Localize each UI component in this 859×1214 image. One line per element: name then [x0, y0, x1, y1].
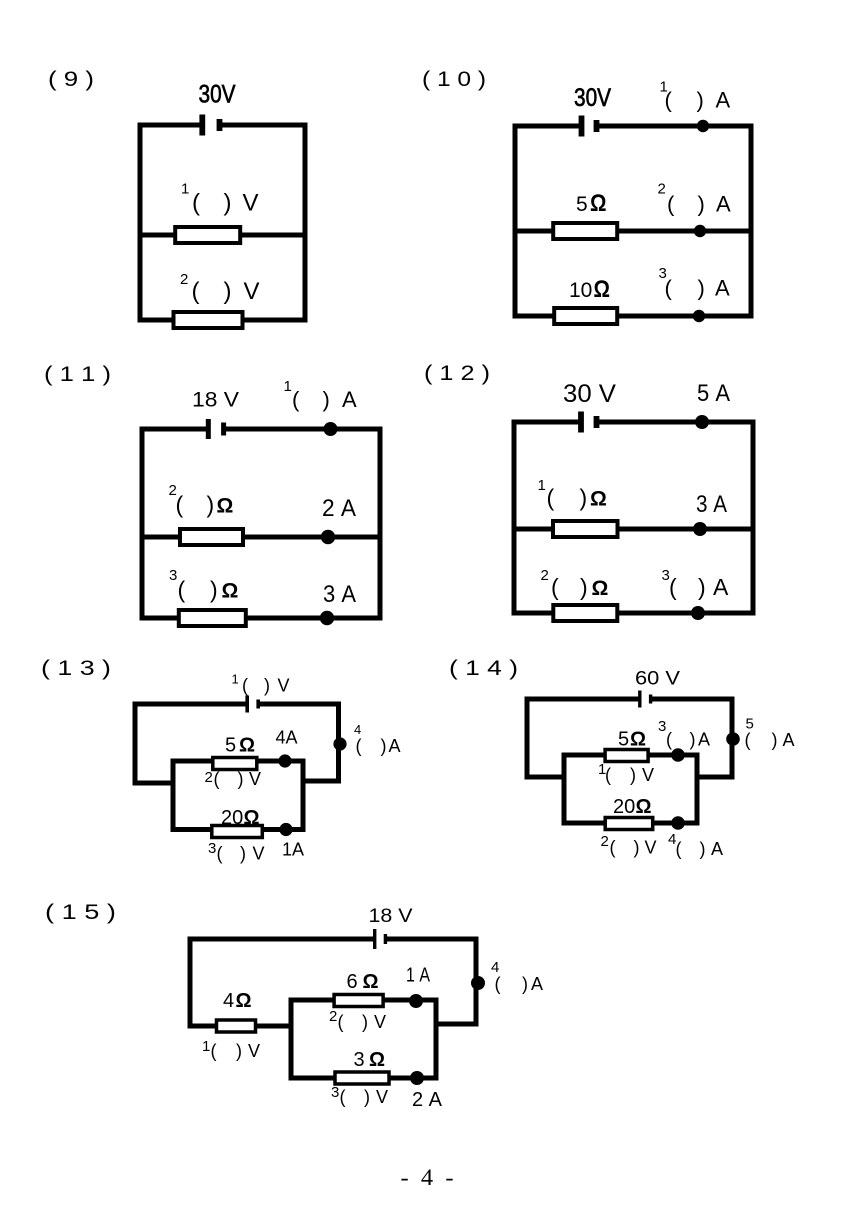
- svg-text:1: 1: [202, 1038, 210, 1055]
- wire: (11) top rail right of battery: [228, 427, 381, 432]
- svg-text:3 A: 3 A: [323, 581, 356, 608]
- answer label 3 ( )V (13): [208, 840, 265, 864]
- resistor value label 3ohm (15): [354, 1049, 386, 1071]
- battery 30V (10): [579, 116, 600, 137]
- wire: (12) left vertical: [512, 422, 517, 613]
- junction dot middle rail (11): [321, 530, 335, 544]
- junction dot right vertical (13): [333, 737, 346, 750]
- wire: (10) bottom rail: [515, 314, 751, 319]
- resistor 5ohm (10): [553, 223, 617, 239]
- svg-text:(: (: [340, 1087, 346, 1107]
- svg-text:Ω: Ω: [636, 796, 652, 818]
- svg-text:1: 1: [181, 181, 189, 198]
- svg-text:20: 20: [613, 796, 635, 818]
- svg-text:): ): [364, 1087, 370, 1107]
- svg-text:): ): [240, 844, 246, 864]
- svg-text:(: (: [551, 574, 559, 600]
- svg-text:A: A: [698, 730, 710, 750]
- resistor value label 10ohm (10): [569, 276, 610, 303]
- svg-text:V: V: [376, 1087, 388, 1107]
- svg-text:): ): [700, 839, 706, 859]
- resistor 10ohm (10): [554, 308, 617, 324]
- svg-text:V: V: [253, 844, 265, 864]
- answer label 2 ( )V (15): [329, 1008, 386, 1032]
- junction dot bottom branch (14): [671, 816, 685, 830]
- svg-text:): ): [224, 190, 232, 217]
- junction dot middle rail (12): [693, 522, 707, 536]
- svg-text:10: 10: [569, 279, 592, 302]
- svg-text:2 A: 2 A: [412, 1089, 443, 1111]
- resistor 20ohm (13): [212, 826, 262, 838]
- wire: (12) top rail left of battery: [514, 420, 576, 425]
- svg-text:30 V: 30 V: [563, 380, 616, 408]
- wire: (9) bottom rail: [140, 318, 305, 323]
- battery 30V (9): [199, 115, 222, 136]
- resistor value label 5ohm (10): [576, 190, 607, 217]
- wire: (10) middle rail: [515, 229, 751, 234]
- svg-text:V: V: [278, 676, 290, 696]
- resistor R1 (12): [553, 521, 618, 537]
- wire: (15) outer right vertical: [474, 939, 479, 1024]
- svg-text:A: A: [531, 974, 543, 994]
- junction dot bottom rail (12): [691, 606, 705, 620]
- battery 30V (12): [578, 412, 599, 433]
- svg-text:): ): [210, 577, 218, 603]
- resistor R1 (9): [175, 227, 240, 243]
- svg-text:(: (: [192, 278, 200, 305]
- svg-text:2 A: 2 A: [322, 495, 356, 522]
- answer label 1 ( )V (9): [181, 181, 259, 217]
- battery 60V (14): [638, 691, 652, 708]
- wire: (10) top rail left of battery: [515, 124, 577, 129]
- answer label 1 ( )A (10): [660, 79, 731, 113]
- svg-text:): ): [381, 736, 387, 756]
- svg-text:3: 3: [208, 840, 216, 857]
- wire: (15) top branch: [291, 998, 436, 1003]
- svg-text:V: V: [645, 838, 657, 858]
- wire: (13) left stub: [135, 781, 173, 786]
- svg-text:2: 2: [180, 271, 188, 288]
- svg-text:30V: 30V: [199, 81, 236, 109]
- resistor R2 (11): [180, 529, 243, 545]
- wire: (9) left vertical: [138, 125, 143, 320]
- svg-text:Ω: Ω: [217, 495, 234, 518]
- svg-text:A: A: [716, 192, 731, 217]
- svg-text:): ): [698, 192, 705, 217]
- svg-text:1: 1: [284, 378, 292, 395]
- svg-text:1 A: 1 A: [406, 965, 431, 987]
- junction dot top rail (12): [695, 415, 709, 429]
- svg-text:(: (: [669, 574, 677, 600]
- svg-text:(: (: [214, 769, 220, 789]
- resistor R2 (9): [174, 312, 243, 328]
- wire: (14) top branch: [564, 753, 697, 758]
- wire: (13) outer right vertical: [336, 704, 341, 781]
- wire: (11) middle rail: [142, 535, 380, 540]
- svg-text:A: A: [783, 730, 795, 750]
- svg-text:V: V: [243, 190, 259, 217]
- svg-text:(: (: [666, 730, 672, 750]
- wire: (15) inner left vertical: [289, 1000, 294, 1078]
- svg-text:): ): [522, 974, 528, 994]
- answer label 3 ( )V (15): [331, 1084, 388, 1107]
- svg-text:V: V: [374, 1012, 386, 1032]
- junction dot top branch (13): [278, 754, 291, 767]
- battery 18V (11): [206, 419, 226, 439]
- wire: (13) inner right vertical: [301, 761, 306, 830]
- svg-text:5: 5: [618, 729, 629, 751]
- wire: (12) right vertical: [751, 422, 756, 613]
- svg-text:1A: 1A: [282, 840, 304, 860]
- svg-text:( 1 0 ): ( 1 0 ): [422, 68, 486, 91]
- wire: (13) inner left vertical: [171, 761, 176, 830]
- answer label 3 ( )A (14): [658, 718, 710, 750]
- svg-text:- 4 -: - 4 -: [401, 1165, 454, 1190]
- wire: (13) top rail right of battery: [261, 702, 339, 707]
- resistor value label 5ohm (13): [225, 735, 255, 757]
- resistor 3ohm (15): [335, 1072, 389, 1084]
- svg-text:): ): [236, 1041, 242, 1061]
- wire: (11) top rail left of battery: [142, 427, 204, 432]
- resistor R3 (11): [179, 610, 246, 626]
- wire: (14) bottom branch: [564, 821, 697, 826]
- junction dot right vertical (14): [726, 732, 740, 746]
- junction dot top rail (11): [324, 422, 338, 436]
- wire: (10) top rail right of battery: [602, 124, 752, 129]
- resistor value label 20ohm (14): [613, 796, 652, 818]
- svg-text:1: 1: [232, 672, 239, 687]
- svg-text:Ω: Ω: [592, 577, 609, 600]
- svg-text:): ): [264, 676, 270, 696]
- wire: (14) inner left vertical: [562, 755, 567, 823]
- svg-text:( 1 2 ): ( 1 2 ): [424, 362, 490, 385]
- svg-text:4: 4: [354, 722, 361, 737]
- answer label 2 ( )ohm (12): [541, 567, 609, 600]
- svg-text:Ω: Ω: [363, 971, 379, 993]
- svg-text:(: (: [192, 190, 200, 217]
- svg-text:(: (: [178, 577, 186, 603]
- svg-text:18 V: 18 V: [192, 389, 239, 412]
- svg-text:A: A: [713, 574, 729, 600]
- answer label 1 ( )V (14): [598, 761, 654, 785]
- svg-text:1: 1: [538, 477, 546, 494]
- resistor 6ohm (15): [334, 995, 383, 1007]
- wire: (11) left vertical: [140, 429, 145, 618]
- svg-text:30V: 30V: [574, 84, 611, 112]
- wire: (10) left vertical: [513, 126, 518, 316]
- wire: (9) middle rail: [140, 233, 305, 238]
- svg-text:3: 3: [354, 1049, 365, 1071]
- wire: (9) top rail left of battery: [140, 123, 198, 128]
- svg-text:(: (: [665, 276, 673, 301]
- wire: (15) top rail right of battery: [388, 937, 477, 942]
- svg-text:): ): [580, 485, 588, 511]
- svg-text:(: (: [547, 485, 555, 511]
- svg-text:Ω: Ω: [222, 580, 239, 603]
- svg-text:Ω: Ω: [630, 729, 646, 751]
- svg-text:(: (: [610, 838, 616, 858]
- wire: (15) top rail left of battery: [190, 937, 372, 942]
- svg-text:5 A: 5 A: [697, 380, 730, 407]
- junction dot right vertical (15): [471, 976, 485, 990]
- svg-text:): ): [698, 276, 705, 301]
- answer label 3 ( )A (12): [662, 567, 730, 600]
- svg-text:(: (: [667, 192, 675, 217]
- wire: (14) outer right vertical: [730, 699, 735, 777]
- svg-text:Ω: Ω: [590, 190, 607, 217]
- svg-text:A: A: [342, 387, 357, 412]
- wire: (15) inner right vertical: [434, 1000, 439, 1078]
- answer label 1 ( )V (15): [202, 1038, 260, 1061]
- svg-text:A: A: [716, 88, 731, 113]
- answer label 4 ( )A (13): [354, 722, 401, 756]
- wire: (12) middle rail: [514, 527, 753, 532]
- junction dot middle rail (10): [694, 225, 706, 237]
- wire: (13) top rail left of battery: [135, 702, 244, 707]
- svg-text:): ): [580, 574, 588, 600]
- junction dot bottom branch (15): [410, 1071, 424, 1085]
- svg-text:(: (: [176, 492, 184, 518]
- answer label 4 ( )A (14): [668, 831, 723, 859]
- svg-text:4: 4: [223, 990, 234, 1012]
- svg-text:2: 2: [205, 769, 213, 786]
- svg-text:(: (: [605, 765, 611, 785]
- svg-text:A: A: [389, 736, 401, 756]
- svg-text:): ): [690, 730, 696, 750]
- svg-text:Ω: Ω: [594, 276, 611, 303]
- junction dot bottom rail (10): [693, 310, 705, 322]
- wire: (9) top rail right of battery: [223, 123, 305, 128]
- svg-text:(: (: [292, 387, 300, 412]
- svg-text:(: (: [495, 974, 501, 994]
- junction dot top branch (15): [409, 994, 423, 1008]
- svg-text:20: 20: [221, 807, 243, 829]
- resistor 5ohm (14): [605, 750, 648, 762]
- wire: (9) right vertical: [303, 125, 308, 320]
- svg-text:2: 2: [601, 833, 609, 850]
- svg-text:Ω: Ω: [590, 488, 607, 511]
- junction dot bottom branch (13): [279, 823, 292, 836]
- wire: (14) left stub: [527, 775, 564, 780]
- svg-text:): ): [634, 838, 640, 858]
- svg-text:): ): [238, 769, 244, 789]
- answer label 3 ( )A (10): [659, 265, 731, 301]
- answer label 2 ( )A (10): [658, 181, 732, 217]
- wire: (10) right vertical: [749, 126, 754, 316]
- wire: (14) top rail right of battery: [653, 697, 732, 702]
- wire: (13) bottom branch: [173, 827, 303, 832]
- wire: (15) right connector: [436, 1022, 476, 1027]
- wire: (12) top rail right of battery: [602, 420, 754, 425]
- wire: (15) left vertical: [188, 939, 193, 1026]
- answer label 2 ( )ohm (11): [169, 482, 234, 518]
- svg-text:): ): [224, 278, 232, 305]
- svg-text:): ): [697, 88, 704, 113]
- svg-text:V: V: [244, 278, 260, 305]
- svg-text:(: (: [356, 736, 362, 756]
- svg-text:): ): [323, 387, 330, 412]
- battery (13): [245, 696, 260, 713]
- svg-text:(: (: [665, 88, 673, 113]
- battery 18V (15): [373, 929, 387, 949]
- wire: (14) left vertical: [525, 699, 530, 777]
- resistor R2 (12): [553, 605, 617, 621]
- resistor 4ohm (15): [217, 1020, 256, 1032]
- resistor value label 4ohm (15): [223, 990, 252, 1012]
- answer label 2 ( )V (14): [601, 833, 657, 858]
- answer label 2 ( )V (9): [180, 271, 260, 305]
- resistor value label 6ohm (15): [347, 971, 379, 993]
- svg-text:(: (: [676, 839, 682, 859]
- svg-text:): ): [362, 1012, 368, 1032]
- wire: (13) right connector: [303, 779, 339, 784]
- svg-text:( 1 1 ): ( 1 1 ): [44, 363, 111, 386]
- resistor 20ohm (14): [605, 818, 653, 830]
- svg-text:3: 3: [169, 567, 177, 584]
- svg-text:3 A: 3 A: [696, 491, 727, 518]
- resistor value label 20ohm (13): [221, 807, 260, 829]
- answer label 4 ( )A (15): [491, 959, 543, 994]
- svg-text:2: 2: [658, 181, 666, 198]
- svg-text:A: A: [715, 276, 730, 301]
- svg-text:18 V: 18 V: [369, 906, 413, 927]
- answer label 2 ( )V (13): [205, 769, 262, 789]
- svg-text:V: V: [642, 765, 654, 785]
- svg-text:(: (: [217, 844, 223, 864]
- svg-text:A: A: [711, 839, 723, 859]
- svg-text:2: 2: [541, 567, 549, 584]
- svg-text:(: (: [745, 730, 751, 750]
- answer label 1 ( )V (13): [232, 672, 290, 696]
- wire: (14) right connector: [697, 775, 732, 780]
- svg-text:V: V: [248, 1041, 260, 1061]
- svg-text:( 1 4 ): ( 1 4 ): [449, 657, 518, 680]
- wire: (11) right vertical: [378, 429, 383, 618]
- wire: (13) left vertical: [133, 704, 138, 783]
- wire: (13) top branch: [173, 759, 303, 764]
- answer label 1 ( )ohm (12): [538, 477, 607, 511]
- answer label 1 ( )A (11): [284, 378, 358, 412]
- junction dot top rail (10): [697, 120, 709, 132]
- svg-text:3: 3: [331, 1084, 339, 1101]
- wire: (15) main branch: [190, 1024, 291, 1029]
- svg-text:Ω: Ω: [369, 1049, 385, 1071]
- svg-text:Ω: Ω: [244, 807, 260, 829]
- svg-text:): ): [207, 492, 215, 518]
- svg-text:( 9 ): ( 9 ): [48, 68, 94, 91]
- wire: (11) bottom rail: [142, 616, 380, 621]
- svg-text:(: (: [211, 1041, 217, 1061]
- wire: (15) bottom branch: [291, 1076, 436, 1081]
- svg-text:60 V: 60 V: [635, 669, 680, 690]
- svg-text:Ω: Ω: [236, 990, 252, 1012]
- svg-text:6: 6: [347, 971, 358, 993]
- svg-text:( 1 5 ): ( 1 5 ): [45, 901, 116, 924]
- answer label 3 ( )ohm (11): [169, 567, 238, 603]
- svg-text:5: 5: [225, 735, 236, 757]
- svg-text:): ): [698, 574, 706, 600]
- answer label 5 ( )A (14): [745, 716, 795, 751]
- svg-text:Ω: Ω: [239, 735, 255, 757]
- junction dot bottom rail (11): [320, 611, 334, 625]
- svg-text:(: (: [242, 676, 248, 696]
- svg-text:( 1 3 ): ( 1 3 ): [41, 657, 111, 680]
- resistor value label 5ohm (14): [618, 729, 646, 751]
- svg-text:): ): [630, 765, 636, 785]
- svg-text:): ): [772, 730, 778, 750]
- svg-text:V: V: [249, 769, 261, 789]
- svg-text:2: 2: [329, 1008, 337, 1025]
- resistor 5ohm (13): [213, 758, 257, 770]
- junction dot top branch (14): [671, 748, 685, 762]
- svg-text:4A: 4A: [276, 728, 298, 748]
- svg-text:(: (: [338, 1012, 344, 1032]
- svg-text:5: 5: [576, 193, 588, 216]
- wire: (12) bottom rail: [514, 611, 753, 616]
- wire: (14) top rail left of battery: [527, 697, 638, 702]
- wire: (14) inner right vertical: [695, 755, 700, 823]
